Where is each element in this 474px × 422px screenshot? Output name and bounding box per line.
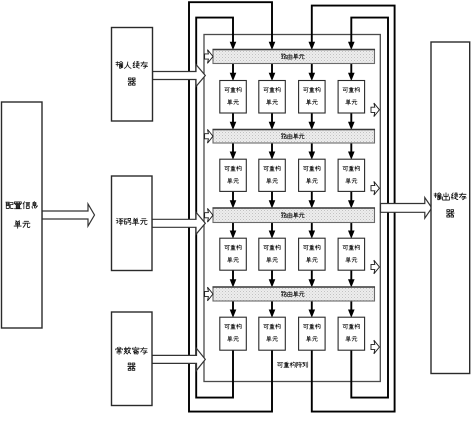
feedback wire column4 (inner-right loop): [348, 18, 388, 398]
reconfigurable unit row1 col4 可重构单元: [338, 81, 365, 114]
reconfigurable unit row3 col1 可重构单元: [220, 238, 247, 270]
reconfigurable unit row2 col3 可重构单元: [299, 159, 326, 191]
wire unit row1 to routing-unit2 col3: [309, 113, 316, 130]
wire unit row3 to routing-unit4 col2: [269, 270, 276, 287]
wire unit row2 to routing-unit3 col3: [309, 191, 316, 208]
box 输出缓存器 output buffer: [431, 42, 470, 374]
reconfigurable unit row4 col3 可重构单元: [299, 317, 326, 350]
wire routing-unit3 to unit row3 col2: [269, 223, 276, 239]
small output arrow from unit row 2: [371, 181, 379, 195]
wire routing-unit1 to unit row1 col4: [348, 64, 355, 82]
big arrow input buffer to array: [153, 65, 206, 87]
wire unit row2 to routing-unit3 col4: [348, 191, 355, 208]
routing unit bar 1 路由单元: [213, 50, 376, 64]
small input arrow into routing unit 3: [205, 208, 213, 222]
feedback wire column1 (inner-left loop): [196, 18, 236, 398]
wire unit row2 to routing-unit3 col1: [230, 191, 237, 208]
reconfigurable unit row1 col3 可重构单元: [299, 81, 326, 114]
big arrow config unit to decode unit: [42, 204, 95, 226]
wire unit row1 to routing-unit2 col4: [348, 113, 355, 130]
wire routing-unit1 to unit row1 col3: [309, 64, 316, 82]
wire routing-unit3 to unit row3 col1: [230, 223, 237, 239]
small input arrow into routing unit 4: [205, 287, 213, 301]
routing unit bar 2 路由单元: [213, 130, 376, 144]
reconfigurable array box 可重构阵列: [204, 35, 380, 382]
wire routing-unit4 to unit row4 col4: [348, 301, 355, 318]
wire routing-unit1 to unit row1 col1: [230, 64, 237, 82]
small output arrow from unit row 3: [371, 260, 379, 274]
box 常数寄存器 constant register: [112, 312, 153, 406]
box 译码单元 decode unit: [112, 176, 153, 271]
big arrow constant register to array: [152, 348, 205, 370]
reconfigurable unit row2 col1 可重构单元: [220, 159, 247, 191]
wire routing-unit3 to unit row3 col4: [348, 223, 355, 239]
box 输入缓存器 input buffer: [112, 28, 153, 122]
wire routing-unit4 to unit row4 col1: [230, 301, 237, 318]
small output arrow from unit row 4: [371, 340, 379, 354]
wire routing-unit1 to unit row1 col2: [269, 64, 276, 82]
routing unit bar 4 路由单元: [213, 287, 376, 301]
reconfigurable unit row2 col2 可重构单元: [259, 159, 286, 191]
wire routing-unit2 to unit row2 col3: [309, 143, 316, 160]
feedback wire column2 (outer-left loop): [189, 2, 275, 411]
box 配置信息单元 configuration info unit: [2, 102, 43, 328]
small output arrow from unit row 1: [371, 103, 379, 117]
reconfigurable unit row1 col2 可重构单元: [259, 81, 286, 114]
wire routing-unit4 to unit row4 col3: [309, 301, 316, 318]
wire unit row1 to routing-unit2 col1: [230, 113, 237, 130]
reconfigurable unit row2 col4 可重构单元: [338, 159, 365, 191]
wire routing-unit4 to unit row4 col2: [269, 301, 276, 318]
wire routing-unit2 to unit row2 col1: [230, 143, 237, 160]
reconfigurable unit row3 col3 可重构单元: [299, 238, 326, 270]
reconfigurable unit row4 col4 可重构单元: [338, 317, 365, 350]
label 可重构阵列: [277, 362, 307, 368]
small input arrow into routing unit 1: [205, 50, 213, 64]
wire unit row3 to routing-unit4 col1: [230, 270, 237, 287]
wire routing-unit3 to unit row3 col3: [309, 223, 316, 239]
wire routing-unit2 to unit row2 col2: [269, 143, 276, 160]
small input arrow into routing unit 2: [205, 129, 213, 143]
wire unit row1 to routing-unit2 col2: [269, 113, 276, 130]
reconfigurable unit row4 col1 可重构单元: [220, 317, 247, 350]
big arrow array to output buffer: [381, 198, 432, 219]
big arrow decode unit to array: [152, 212, 205, 234]
wire routing-unit2 to unit row2 col4: [348, 143, 355, 160]
wire unit row3 to routing-unit4 col3: [309, 270, 316, 287]
reconfigurable unit row3 col4 可重构单元: [338, 238, 365, 270]
routing unit bar 3 路由单元: [213, 208, 376, 223]
feedback wire column3 (outer-right loop): [309, 6, 395, 412]
wire unit row2 to routing-unit3 col2: [269, 191, 276, 208]
wire unit row3 to routing-unit4 col4: [348, 270, 355, 287]
reconfigurable unit row1 col1 可重构单元: [220, 81, 247, 114]
reconfigurable unit row4 col2 可重构单元: [259, 317, 286, 350]
reconfigurable unit row3 col2 可重构单元: [259, 238, 286, 270]
